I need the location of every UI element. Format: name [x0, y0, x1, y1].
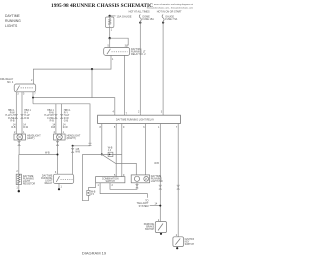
svg-text:W-B: W-B — [75, 150, 80, 153]
wire module pin5 to combination switch — [115, 126, 117, 177]
diagonal wire from node H to indicator — [102, 154, 137, 175]
svg-text:R-B: R-B — [51, 126, 56, 129]
wire K4 pin to left headlight low — [15, 92, 17, 134]
svg-text:LIGHTS: LIGHTS — [5, 24, 18, 28]
svg-text:RESISTOR: RESISTOR — [23, 183, 35, 186]
svg-text:7: 7 — [34, 93, 36, 96]
svg-text:HOT IN ON OR START: HOT IN ON OR START — [157, 11, 182, 14]
relay K3 lower relay box — [53, 174, 73, 183]
inline connector box J4 on bus — [108, 152, 113, 156]
svg-text:SYSTEM: SYSTEM — [139, 205, 149, 208]
node C junction on bus — [91, 68, 93, 70]
wire from node A to label — [110, 15, 116, 17]
svg-text:LIGHT IND: LIGHT IND — [151, 180, 163, 183]
wire left bulb ground — [18, 140, 20, 155]
svg-text:7: 7 — [176, 126, 178, 129]
svg-text:RUNNING: RUNNING — [5, 19, 21, 23]
wire resistor to ground — [18, 185, 20, 191]
noise filter connector box — [87, 190, 90, 195]
wire branch to right headlight low — [55, 104, 57, 134]
svg-text:HOT AT ALL TIMES: HOT AT ALL TIMES — [129, 11, 150, 14]
headlight left bulb — [14, 134, 26, 140]
node E junction — [72, 145, 74, 147]
svg-text:FUSE 7.5A: FUSE 7.5A — [165, 18, 177, 21]
svg-text:2: 2 — [54, 131, 56, 134]
switch S2 bottom right — [173, 237, 184, 247]
svg-text:freeautomechanic.com - freea: freeautomechanic.com - freeautomechanic.… — [147, 6, 193, 9]
svg-text:5: 5 — [114, 126, 116, 129]
fuse F1 DRL — [105, 16, 114, 28]
wire module pin8 down to bus — [101, 126, 103, 155]
svg-text:1995-98 4RUNNER CHASSIS SCHEMA: 1995-98 4RUNNER CHASSIS SCHEMATIC — [51, 3, 153, 9]
wire node E down to relay K3 top — [72, 146, 74, 174]
wire branch node B to relay top right pin — [110, 38, 129, 47]
svg-text:1: 1 — [16, 186, 18, 189]
connector C7 on center drop wire — [89, 143, 92, 145]
svg-text:W-B: W-B — [154, 162, 159, 165]
node H junction on lower bus — [101, 153, 103, 155]
svg-text:1: 1 — [98, 184, 100, 187]
svg-text:3: 3 — [17, 93, 19, 96]
svg-text:R-W: R-W — [63, 126, 69, 129]
headlight right bulb — [54, 134, 66, 140]
svg-text:J 5: J 5 — [91, 193, 95, 196]
svg-text:1: 1 — [63, 131, 65, 134]
indicator box with lamps — [131, 175, 149, 183]
wire module pin1 down right side — [159, 126, 161, 222]
svg-text:2: 2 — [138, 111, 140, 114]
wire module pin6 to indicator — [145, 126, 147, 175]
resistor R1 DRL resistor — [16, 174, 21, 184]
svg-text:1: 1 — [23, 131, 25, 134]
svg-text:9: 9 — [123, 126, 125, 129]
svg-text:R-B: R-B — [10, 120, 15, 123]
svg-text:15A GAUGE: 15A GAUGE — [117, 14, 132, 18]
bus wire y97.6 to module — [33, 98, 115, 114]
svg-text:R-B: R-B — [11, 126, 16, 129]
svg-text:(LEFT): (LEFT) — [27, 137, 35, 140]
relay K2 DRL relay no.2 — [104, 48, 130, 56]
switch S1 lower right — [155, 222, 166, 233]
svg-text:R-W: R-W — [24, 117, 30, 120]
node D junction — [32, 97, 34, 99]
svg-text:RELAY NO. 2: RELAY NO. 2 — [131, 53, 146, 56]
wire K4 pin down to second bus — [32, 98, 34, 104]
svg-text:6: 6 — [143, 126, 145, 129]
svg-text:RELAY: RELAY — [45, 182, 53, 185]
fuse F2 — [139, 15, 141, 22]
wire branch to right headlight high — [61, 104, 63, 134]
svg-text:R-W: R-W — [23, 126, 29, 129]
svg-text:1: 1 — [61, 186, 63, 189]
module U1 daytime running light relay — [98, 115, 181, 123]
ground bus wire between headlights — [19, 154, 57, 156]
wire S2 to ground — [176, 247, 178, 248]
bus wire y103.8 with center drop — [33, 104, 90, 143]
ground G4 — [160, 233, 162, 235]
svg-text:3: 3 — [55, 171, 57, 174]
wire segment to noise filter — [88, 183, 95, 190]
ground G5 — [176, 247, 178, 249]
connector C6 on right ground — [56, 142, 59, 146]
connector C1 on left low wire — [15, 114, 18, 118]
svg-text:5: 5 — [107, 45, 109, 48]
node A junction dot at fuse top — [109, 15, 111, 17]
svg-text:SWITCH: SWITCH — [145, 228, 155, 231]
wire relay K2 right pin down to module pin — [123, 55, 125, 113]
svg-text:DAYTIME: DAYTIME — [5, 14, 21, 18]
noise filter dot — [88, 192, 89, 193]
connector C11 on indicator wire — [136, 185, 139, 188]
svg-text:SWITCH: SWITCH — [185, 243, 194, 246]
svg-text:2: 2 — [31, 79, 33, 82]
svg-text:1: 1 — [158, 126, 160, 129]
svg-text:5: 5 — [23, 93, 25, 96]
connector C4 on right high wire — [60, 114, 63, 118]
svg-text:1: 1 — [112, 58, 114, 61]
wire node B to relay top left pin — [109, 38, 111, 47]
wire fuse F3 to module — [162, 21, 164, 113]
svg-text:G-B: G-B — [64, 120, 69, 123]
connector C5 on left ground — [18, 142, 21, 146]
svg-text:more schematics and wiring dia: more schematics and wiring diagrams at — [154, 3, 194, 6]
svg-text:R-B: R-B — [50, 120, 55, 123]
wire relay K3 to ground — [58, 184, 60, 189]
pin ticks below module — [102, 124, 178, 126]
svg-text:1: 1 — [111, 28, 113, 31]
svg-text:J 4: J 4 — [108, 149, 112, 152]
svg-text:DIAGRAM 19: DIAGRAM 19 — [82, 250, 107, 255]
wire K4 pin to left headlight high — [21, 92, 23, 134]
svg-text:W-B: W-B — [45, 151, 50, 154]
svg-text:(RIGHT): (RIGHT) — [67, 137, 76, 140]
node G dot below fuse F3 — [162, 22, 164, 24]
svg-text:2: 2 — [112, 184, 114, 187]
node B junction dot — [109, 37, 111, 39]
wire module pin9 to combination switch — [121, 126, 123, 177]
wire reference to pin1 wire — [150, 205, 161, 207]
svg-text:SWITCH: SWITCH — [105, 180, 115, 183]
svg-text:4: 4 — [112, 111, 114, 114]
wire combination switch to reference arrow — [100, 183, 147, 198]
wire bus left end down to junction box path — [83, 154, 89, 200]
node I junction — [159, 205, 161, 207]
pin ticks above module — [115, 113, 163, 115]
wire relay K2 left pin down, left bus to relay K4 — [33, 55, 111, 84]
wire S1 to ground — [160, 232, 162, 235]
svg-text:2: 2 — [16, 170, 18, 173]
wire bus down to resistor — [18, 155, 20, 175]
connector C3 on right low wire — [54, 114, 57, 118]
wire fuse F2 to module — [139, 21, 141, 113]
fuse F3 — [162, 15, 164, 22]
ground G1 — [18, 190, 20, 192]
svg-text:2: 2 — [14, 131, 16, 134]
node F dot below fuse F2 — [139, 22, 141, 24]
ground G2 — [58, 188, 60, 190]
svg-text:FUSE 15A: FUSE 15A — [143, 18, 155, 21]
wire fuse to node B — [109, 28, 111, 39]
relay K4 DRL relay no.4 — [14, 84, 36, 92]
connector C9 on pin1 wire — [159, 185, 162, 189]
svg-text:DAYTIME RUNNING LIGHT RELAY: DAYTIME RUNNING LIGHT RELAY — [116, 119, 155, 122]
combination switch box — [96, 177, 125, 183]
node J junction right bulb ground x bus — [57, 154, 59, 156]
svg-text:3: 3 — [161, 111, 163, 114]
wire node C down to module bus — [91, 69, 93, 98]
svg-text:NO. 4: NO. 4 — [7, 81, 14, 84]
wire K4 pin right branch down — [32, 92, 34, 98]
J4 dot — [109, 154, 111, 156]
connector C8 on node E wire — [71, 148, 74, 152]
wire module pin7 down right side — [177, 126, 179, 237]
lower bus wire — [83, 153, 122, 155]
connector C10 on pin7 wire — [177, 185, 180, 189]
svg-text:8: 8 — [99, 126, 101, 129]
wire indicator ground to combination switch — [110, 183, 137, 190]
wire right bulb ground down to relay K3 — [57, 140, 59, 174]
svg-text:3: 3 — [125, 45, 127, 48]
wire center drop to node E — [73, 144, 90, 146]
connector C2 on left high wire — [21, 114, 24, 118]
